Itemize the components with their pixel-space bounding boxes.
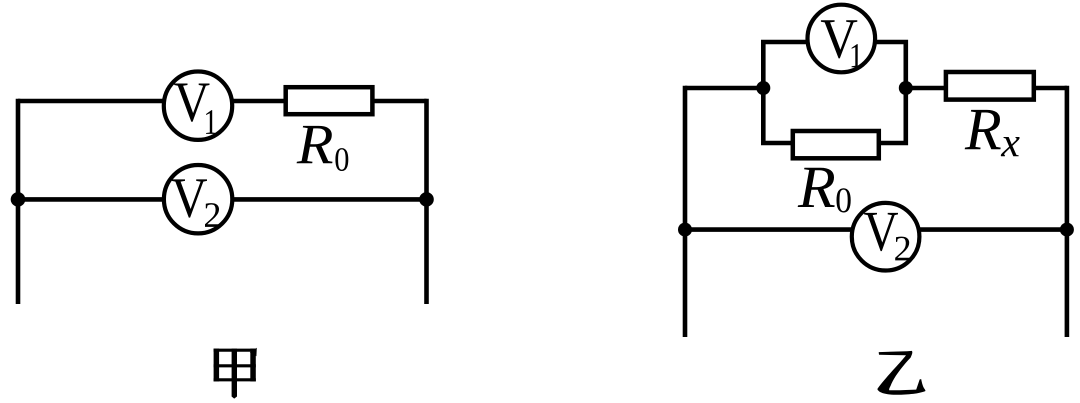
node: circuit-2 lower-right junction (1060, 223, 1074, 237)
label Rx (circuit 2) (965, 110, 1020, 156)
wire: circuit-1 top conductor (left rail to R0) (18, 99, 427, 104)
wire: circuit-1 right vertical rail (424, 99, 429, 304)
node: circuit-1 left junction (11, 192, 26, 207)
wire: circuit-2 lower conductor (V2 branch) (685, 227, 1067, 232)
wire: circuit-1 middle conductor (V2 branch) (18, 197, 427, 202)
resistor R0 (circuit 2, lower parallel branch) (793, 131, 879, 158)
wire: circuit-2 node B to Rx (906, 86, 946, 91)
label R0 (circuit 1) (297, 126, 349, 171)
node: circuit-1 right junction (419, 192, 434, 207)
wire: circuit-2 right vertical rail (1065, 86, 1070, 337)
wire: circuit-2 Rx to right rail (1034, 86, 1067, 91)
label 甲 (circuit 1 caption, drawn strokes) (214, 348, 257, 399)
voltmeter V2 (circuit 1) (164, 165, 232, 233)
wire: circuit-1 left vertical rail (16, 99, 21, 304)
label R0 (circuit 2) (798, 168, 851, 213)
wire: circuit-2 parallel-section bottom branch (through R0) (763, 88, 906, 143)
resistor R0 (circuit 1) (286, 87, 373, 114)
resistor Rx (circuit 2) (946, 72, 1034, 100)
node A: circuit-2 left node of parallel section (756, 81, 770, 95)
wire: circuit-2 left vertical rail (683, 86, 688, 337)
wire: circuit-2 top-left stub (rail to node A) (685, 86, 763, 91)
wire: circuit-2 parallel-section top branch (through V1) (763, 42, 906, 88)
label 乙 (circuit 2 caption, drawn strokes) (877, 351, 925, 395)
voltmeter V1 (circuit 1) (164, 72, 232, 140)
voltmeter V1 (circuit 2) (808, 5, 876, 73)
node: circuit-2 lower-left junction (678, 223, 692, 237)
voltmeter V2 (circuit 2) (852, 203, 920, 271)
node B: circuit-2 right node of parallel section (899, 81, 913, 95)
